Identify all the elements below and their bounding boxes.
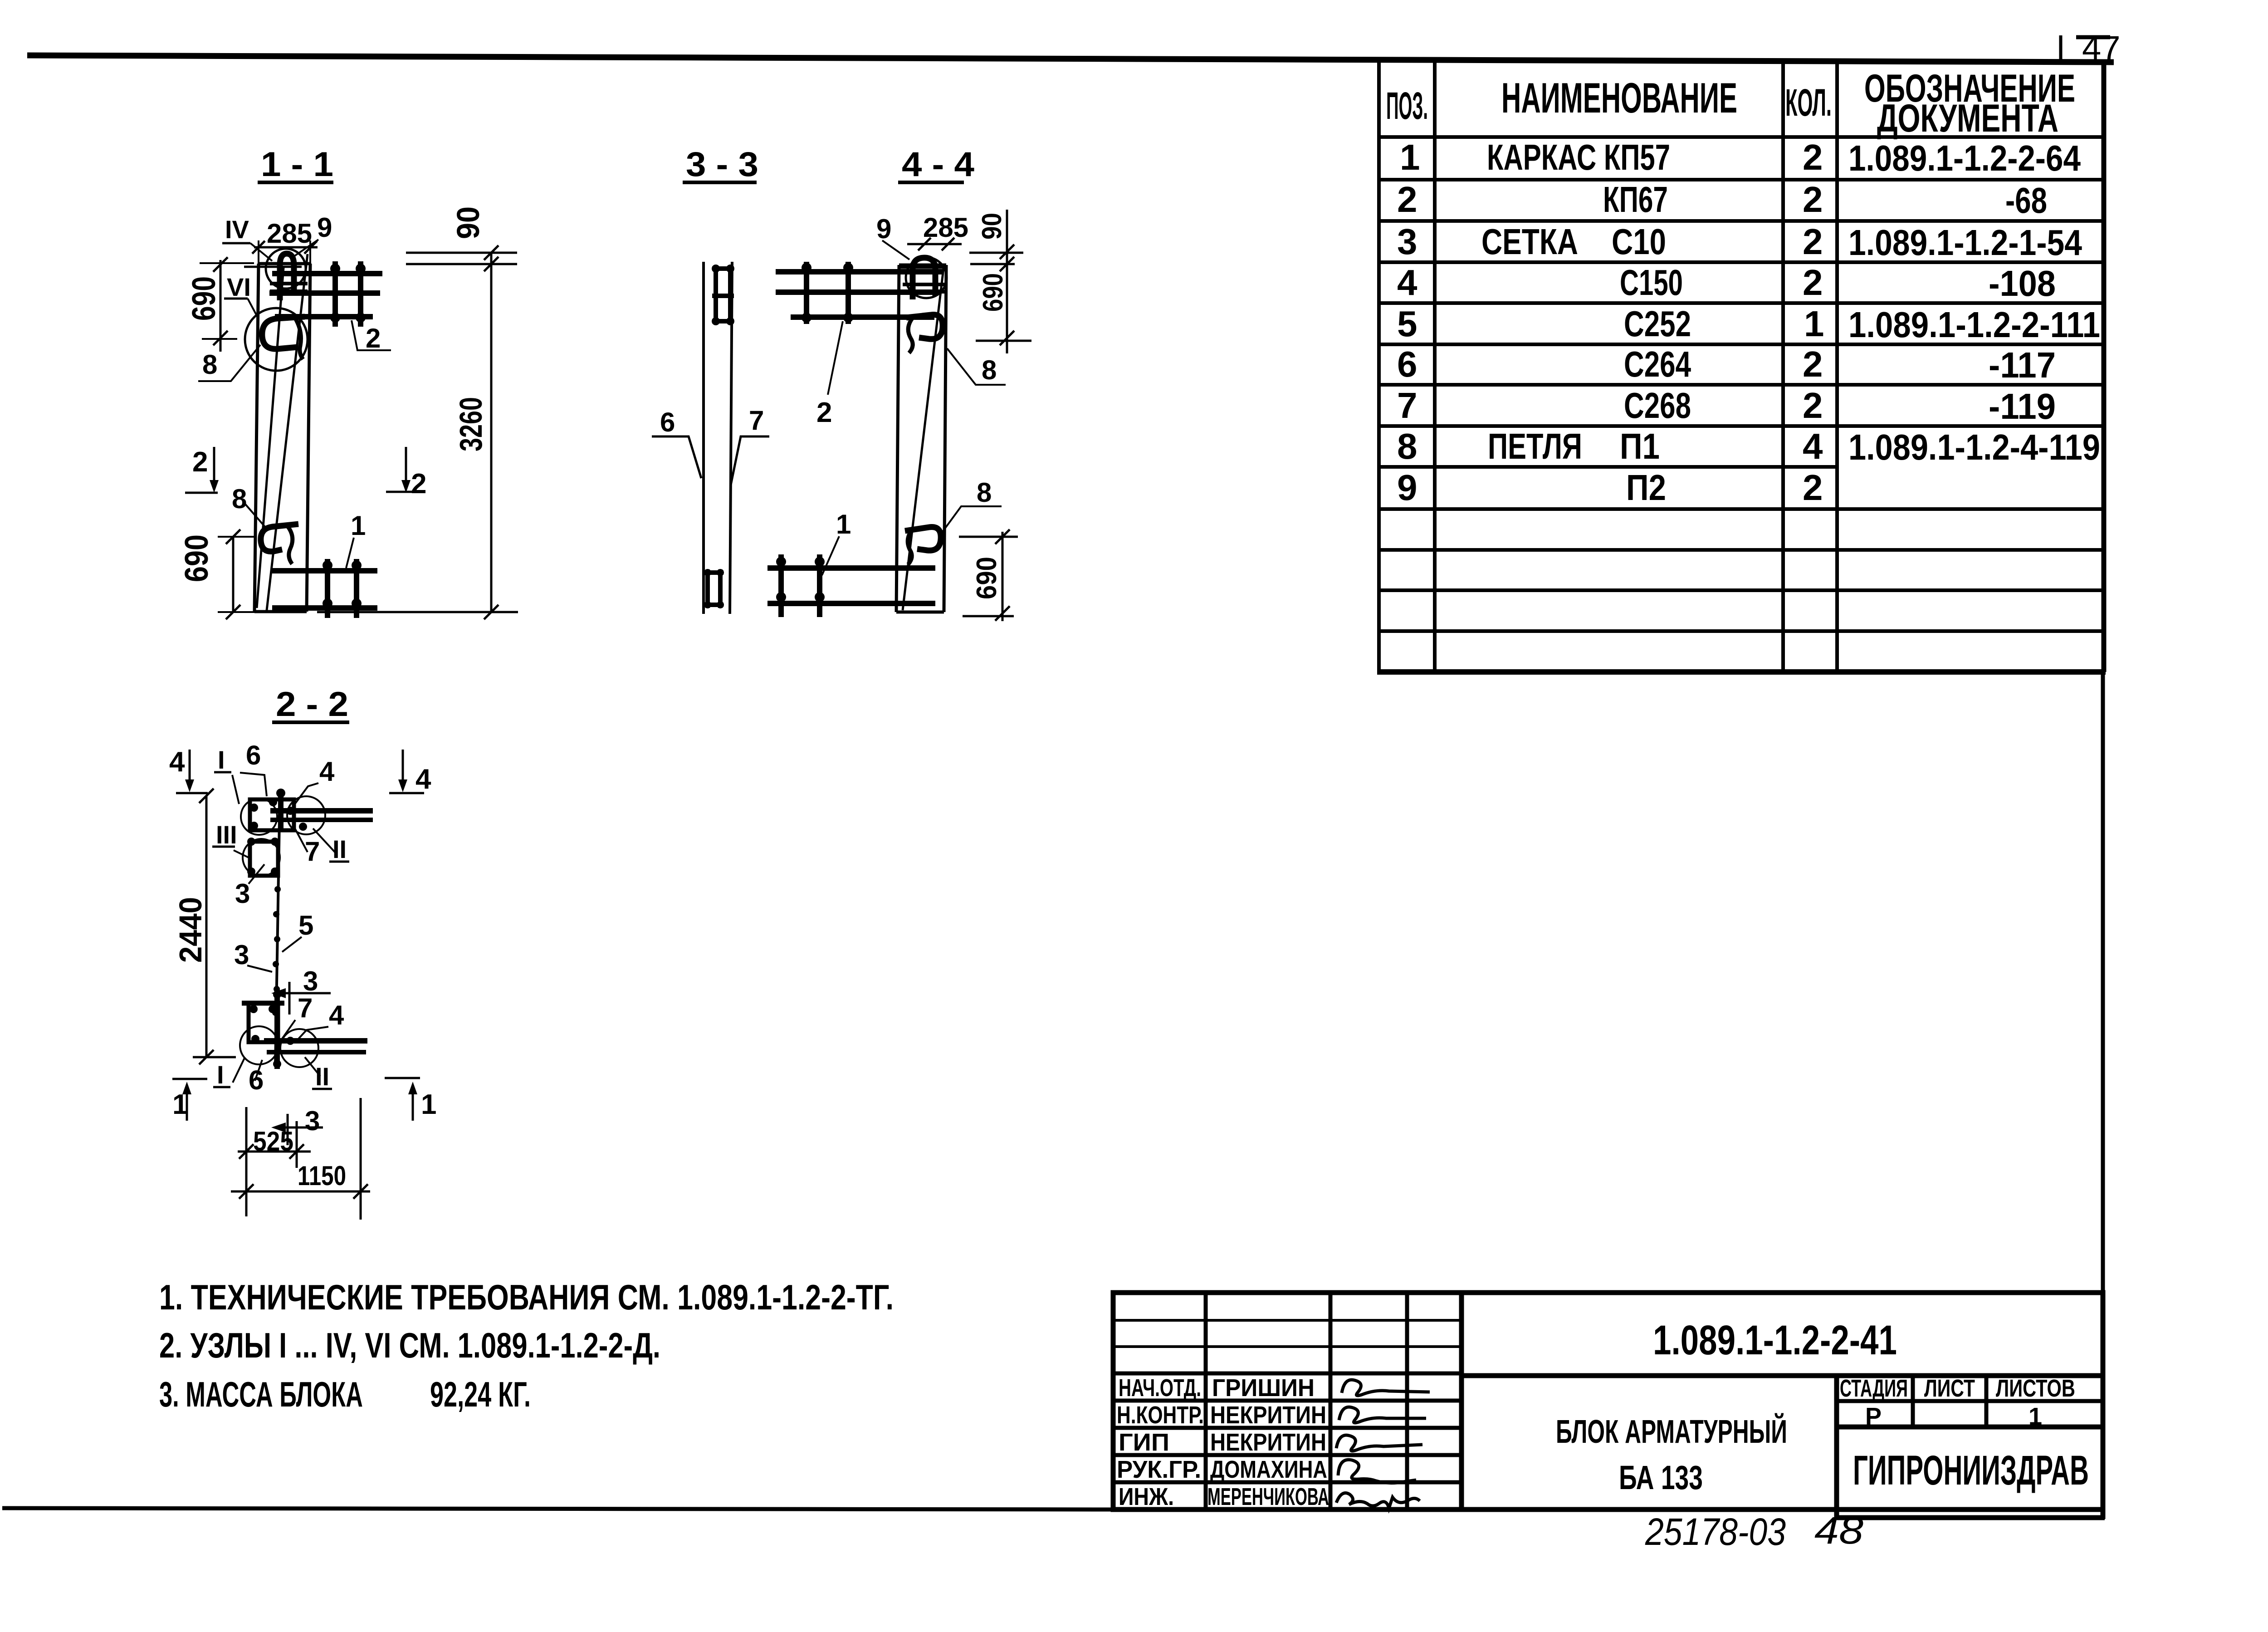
svg-text:690: 690 <box>179 534 215 582</box>
svg-text:ПЕТЛЯ: ПЕТЛЯ <box>1488 426 1582 466</box>
svg-text:1.089.1-1.2-2-111: 1.089.1-1.2-2-111 <box>1848 304 2100 345</box>
svg-text:-68: -68 <box>2005 180 2047 221</box>
svg-text:ИНЖ.: ИНЖ. <box>1119 1483 1174 1510</box>
svg-text:С264: С264 <box>1624 344 1691 384</box>
svg-text:25178-03: 25178-03 <box>1645 1510 1786 1553</box>
svg-text:IV: IV <box>225 215 249 244</box>
svg-text:С268: С268 <box>1624 385 1691 426</box>
svg-text:90: 90 <box>450 206 486 239</box>
svg-text:КП67: КП67 <box>1603 179 1668 220</box>
svg-text:РУК.ГР.: РУК.ГР. <box>1117 1456 1201 1483</box>
svg-text:II: II <box>315 1062 329 1091</box>
svg-text:3: 3 <box>305 1106 320 1136</box>
svg-text:7: 7 <box>298 993 313 1023</box>
svg-text:С252: С252 <box>1624 304 1691 344</box>
svg-text:6: 6 <box>249 1065 264 1095</box>
svg-text:ДОКУМЕНТА: ДОКУМЕНТА <box>1877 97 2058 140</box>
svg-text:6: 6 <box>660 407 675 437</box>
svg-text:С10: С10 <box>1612 221 1666 262</box>
svg-text:2: 2 <box>1803 344 1823 384</box>
svg-text:2: 2 <box>1803 137 1823 177</box>
svg-text:1: 1 <box>2028 1403 2042 1430</box>
svg-text:4 - 4: 4 - 4 <box>902 145 974 184</box>
svg-text:6: 6 <box>1397 344 1417 384</box>
svg-text:2 - 2: 2 - 2 <box>276 685 348 724</box>
svg-text:2440: 2440 <box>173 897 208 963</box>
svg-text:III: III <box>216 820 237 849</box>
svg-text:П2: П2 <box>1626 467 1666 508</box>
svg-text:СТАДИЯ: СТАДИЯ <box>1840 1375 1908 1402</box>
svg-text:2: 2 <box>1803 179 1823 220</box>
svg-text:1: 1 <box>1400 137 1420 177</box>
svg-text:2: 2 <box>816 397 832 428</box>
svg-text:2: 2 <box>192 446 208 478</box>
svg-text:2: 2 <box>411 468 426 500</box>
svg-text:3: 3 <box>303 966 318 996</box>
svg-text:2: 2 <box>1803 467 1823 508</box>
svg-text:3260: 3260 <box>453 397 489 451</box>
svg-text:8: 8 <box>977 477 992 508</box>
svg-text:47: 47 <box>2082 29 2121 68</box>
svg-text:7: 7 <box>305 836 320 867</box>
svg-text:4: 4 <box>1397 262 1417 303</box>
svg-text:-119: -119 <box>1989 386 2056 426</box>
svg-text:1.089.1-1.2-4-119: 1.089.1-1.2-4-119 <box>1848 427 2100 467</box>
svg-text:2: 2 <box>366 323 381 353</box>
svg-text:2: 2 <box>1397 179 1417 220</box>
svg-text:90: 90 <box>977 213 1007 240</box>
svg-text:1: 1 <box>421 1089 436 1120</box>
svg-text:БА 133: БА 133 <box>1619 1459 1703 1496</box>
svg-text:7: 7 <box>749 405 764 436</box>
svg-text:-117: -117 <box>1989 345 2056 385</box>
svg-text:690: 690 <box>978 273 1009 312</box>
svg-text:ЛИСТ: ЛИСТ <box>1924 1375 1975 1402</box>
svg-text:3. МАССА БЛОКА: 3. МАССА БЛОКА <box>159 1374 363 1414</box>
svg-text:9: 9 <box>1397 467 1417 508</box>
svg-text:ГРИШИН: ГРИШИН <box>1212 1374 1315 1402</box>
svg-text:БЛОК АРМАТУРНЫЙ: БЛОК АРМАТУРНЫЙ <box>1556 1413 1787 1450</box>
svg-text:С150: С150 <box>1620 262 1683 303</box>
svg-text:525: 525 <box>253 1126 293 1157</box>
svg-text:ГИПРОНИИЗДРАВ: ГИПРОНИИЗДРАВ <box>1853 1447 2089 1494</box>
svg-text:8: 8 <box>202 349 217 380</box>
svg-text:НЕКРИТИН: НЕКРИТИН <box>1210 1402 1326 1429</box>
svg-text:ДОМАХИНА: ДОМАХИНА <box>1210 1456 1327 1483</box>
svg-text:3: 3 <box>1397 221 1417 262</box>
svg-text:ГИП: ГИП <box>1119 1429 1169 1456</box>
svg-text:285: 285 <box>267 218 312 249</box>
svg-text:II: II <box>332 835 347 863</box>
svg-text:2: 2 <box>1803 221 1823 262</box>
svg-text:КОЛ.: КОЛ. <box>1785 81 1832 124</box>
svg-text:48: 48 <box>1814 1509 1863 1552</box>
svg-text:I: I <box>217 1060 224 1089</box>
svg-text:2: 2 <box>1803 385 1823 426</box>
svg-text:1.089.1-1.2-2-64: 1.089.1-1.2-2-64 <box>1848 138 2081 178</box>
svg-text:3 - 3: 3 - 3 <box>686 145 758 184</box>
svg-text:СЕТКА: СЕТКА <box>1481 221 1578 262</box>
svg-text:Н.КОНТР.: Н.КОНТР. <box>1117 1402 1204 1429</box>
svg-text:2: 2 <box>1803 262 1823 303</box>
svg-text:VI: VI <box>227 273 251 301</box>
svg-text:3: 3 <box>234 940 249 970</box>
svg-text:5: 5 <box>298 910 313 941</box>
svg-text:1: 1 <box>351 510 366 541</box>
svg-text:НАЧ.ОТД.: НАЧ.ОТД. <box>1119 1374 1201 1402</box>
svg-text:2. УЗЛЫ I ... IV, VI СМ. 1.: 2. УЗЛЫ I ... IV, VI СМ. 1.089.1-1.2-2-Д… <box>159 1325 660 1365</box>
svg-text:КАРКАС КП57: КАРКАС КП57 <box>1487 137 1670 177</box>
svg-text:Р: Р <box>1865 1403 1882 1430</box>
svg-text:4: 4 <box>169 746 185 778</box>
svg-text:ЛИСТОВ: ЛИСТОВ <box>1996 1375 2075 1402</box>
svg-text:4: 4 <box>329 1000 344 1030</box>
svg-text:7: 7 <box>1397 385 1417 426</box>
svg-text:690: 690 <box>186 276 222 321</box>
svg-text:4: 4 <box>319 756 335 787</box>
svg-text:4: 4 <box>1803 426 1823 466</box>
svg-text:1: 1 <box>836 509 851 539</box>
svg-text:-108: -108 <box>1989 263 2056 304</box>
svg-text:МЕРЕНЧИКОВА: МЕРЕНЧИКОВА <box>1207 1483 1329 1510</box>
svg-text:1. ТЕХНИЧЕСКИЕ ТРЕБОВАНИЯ СМ: 1. ТЕХНИЧЕСКИЕ ТРЕБОВАНИЯ СМ. 1.089.1-1.… <box>159 1277 894 1317</box>
svg-text:4: 4 <box>415 764 431 795</box>
svg-text:1 - 1: 1 - 1 <box>261 145 333 184</box>
svg-text:6: 6 <box>246 740 261 770</box>
svg-text:1.089.1-1.2-1-54: 1.089.1-1.2-1-54 <box>1848 222 2082 263</box>
svg-text:3: 3 <box>235 878 250 909</box>
svg-text:ПОЗ.: ПОЗ. <box>1386 84 1428 127</box>
svg-text:1150: 1150 <box>298 1161 346 1191</box>
svg-text:НЕКРИТИН: НЕКРИТИН <box>1210 1429 1326 1456</box>
svg-text:1: 1 <box>172 1089 188 1120</box>
svg-text:92,24 КГ.: 92,24 КГ. <box>430 1374 531 1414</box>
svg-text:9: 9 <box>317 212 332 243</box>
svg-text:8: 8 <box>982 355 997 385</box>
svg-text:НАИМЕНОВАНИЕ: НАИМЕНОВАНИЕ <box>1501 74 1737 122</box>
svg-text:1: 1 <box>1804 304 1824 344</box>
svg-text:8: 8 <box>232 484 247 514</box>
svg-text:285: 285 <box>923 212 968 243</box>
svg-text:5: 5 <box>1397 304 1417 344</box>
svg-text:8: 8 <box>1397 426 1417 466</box>
svg-text:690: 690 <box>971 557 1002 599</box>
svg-text:I: I <box>218 745 225 774</box>
svg-text:9: 9 <box>876 214 891 244</box>
svg-text:1.089.1-1.2-2-41: 1.089.1-1.2-2-41 <box>1653 1317 1897 1363</box>
svg-text:П1: П1 <box>1620 426 1660 466</box>
